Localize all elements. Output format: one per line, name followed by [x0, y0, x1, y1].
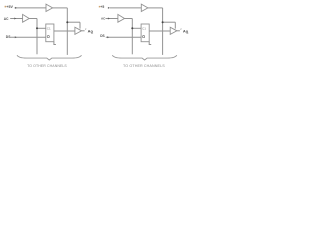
svg-text:AC: AC	[4, 17, 9, 21]
svg-text:+5V: +5V	[6, 5, 13, 9]
svg-text:DS: DS	[6, 35, 11, 39]
svg-text:+5: +5	[100, 5, 104, 9]
svg-text:TO OTHER CHANNELS: TO OTHER CHANNELS	[27, 64, 67, 68]
svg-text:TO OTHER CHANNELS: TO OTHER CHANNELS	[123, 64, 165, 68]
svg-text:AC: AC	[101, 16, 106, 20]
svg-text:DS: DS	[100, 34, 104, 38]
